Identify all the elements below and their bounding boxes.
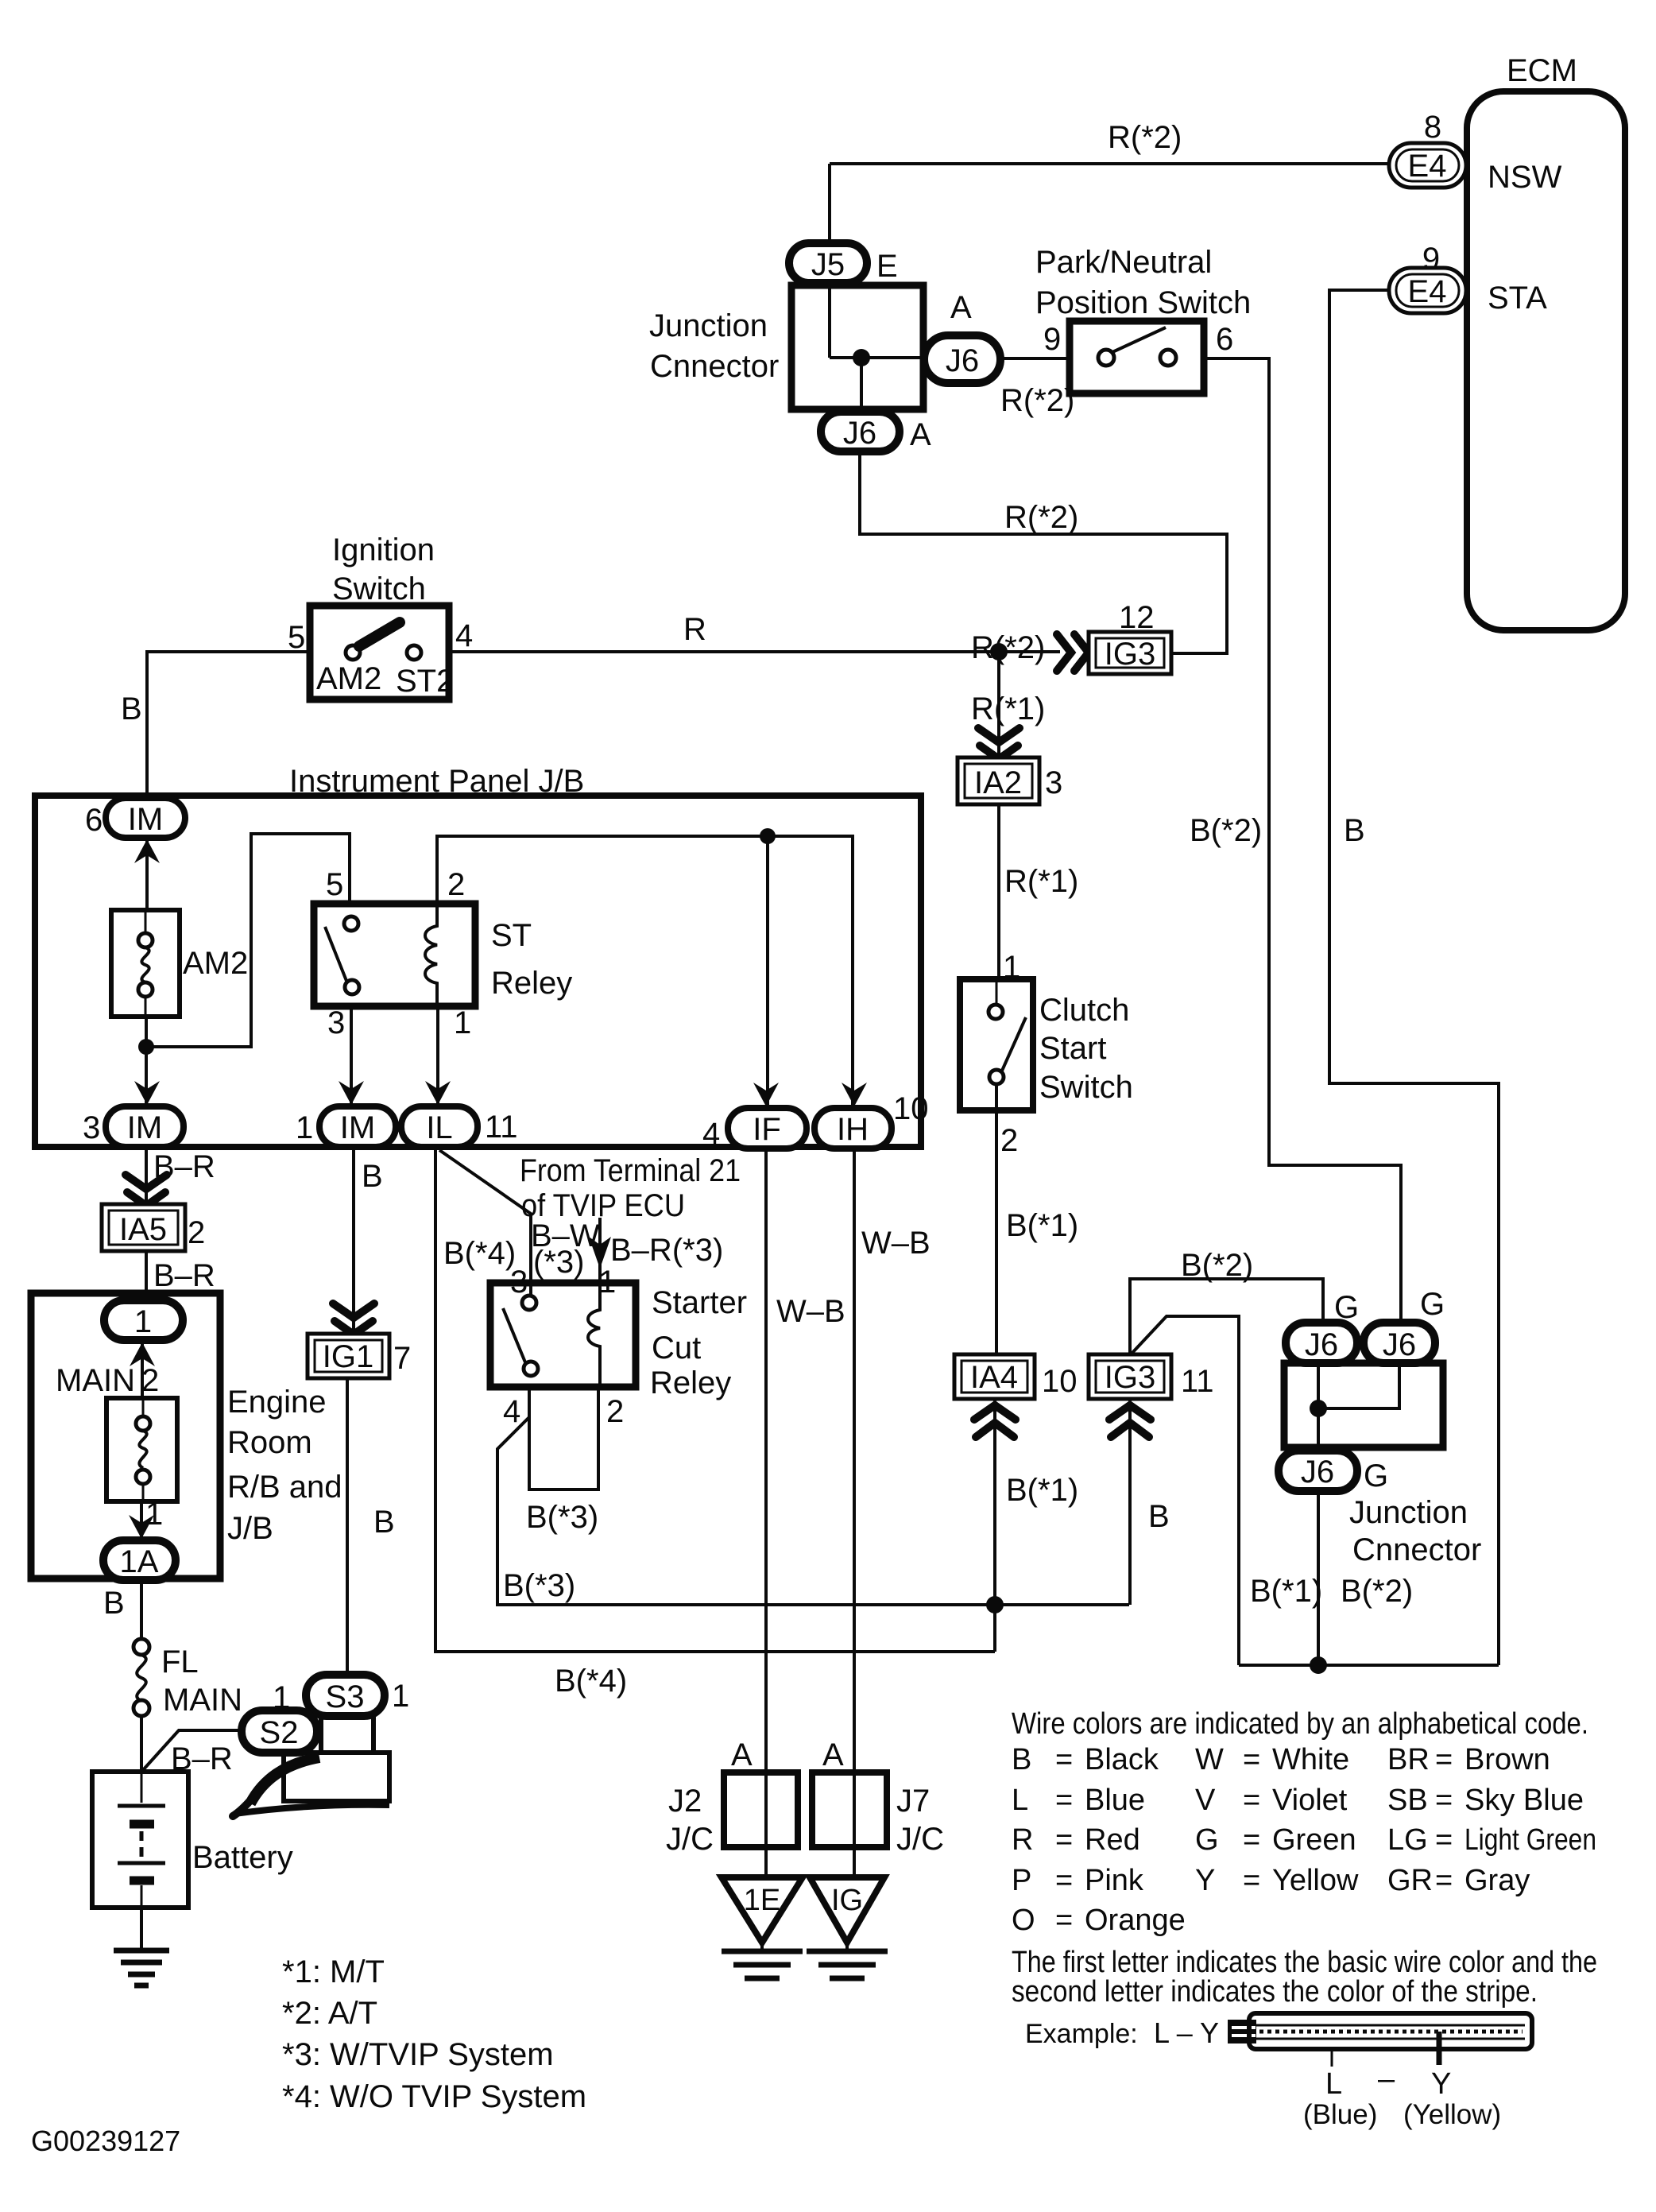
- svg-text:1: 1: [296, 1110, 313, 1145]
- svg-text:J5: J5: [811, 247, 845, 282]
- svg-text:ST: ST: [491, 918, 532, 953]
- wire from IL to starter cut relay pin 3: [439, 1150, 531, 1296]
- svg-text:A: A: [822, 1737, 844, 1772]
- svg-text:Cut: Cut: [652, 1331, 701, 1366]
- svg-text:L: L: [1325, 2067, 1342, 2101]
- svg-text:J6: J6: [843, 416, 876, 451]
- connector J2 J/C pin A: [666, 1737, 798, 1857]
- svg-text:4: 4: [503, 1394, 520, 1429]
- svg-text:5: 5: [326, 867, 343, 902]
- wire B from 1A to FL MAIN: [103, 1579, 141, 1640]
- svg-text:Clutch: Clutch: [1039, 993, 1129, 1028]
- svg-text:B: B: [121, 691, 142, 726]
- wire MAIN fuse to 1A: [140, 1501, 143, 1540]
- wire W-B from IF to J2 J/C: [766, 1149, 845, 1881]
- Ignition Switch S4: [288, 533, 473, 699]
- wire R(*1) from IA2 to clutch start switch pin 1: [999, 804, 1078, 979]
- svg-text:Junction: Junction: [649, 308, 768, 343]
- svg-text:12: 12: [1119, 600, 1155, 635]
- bottom junction line B(*1)/B(*2): [1239, 1574, 1499, 1665]
- svg-text:=: =: [1243, 1823, 1260, 1857]
- wire B from IM1 to IG1: [354, 1147, 383, 1334]
- svg-text:B: B: [1344, 813, 1365, 848]
- svg-text:B(*2): B(*2): [1190, 813, 1262, 848]
- connector IA5 pin 2: [102, 1204, 205, 1251]
- connector J5 (E): [789, 243, 898, 284]
- svg-text:W–B: W–B: [861, 1226, 931, 1261]
- svg-text:IG3: IG3: [1105, 1360, 1155, 1395]
- svg-text:R/B and: R/B and: [227, 1470, 342, 1505]
- ground connector IG: [810, 1877, 884, 1943]
- svg-text:1: 1: [134, 1304, 152, 1339]
- svg-text:Ignition: Ignition: [332, 533, 435, 568]
- Starter Cut Relay K2: [490, 1265, 747, 1429]
- svg-text:Y: Y: [1431, 2067, 1451, 2101]
- svg-text:Park/Neutral: Park/Neutral: [1035, 245, 1212, 280]
- svg-text:E4: E4: [1408, 274, 1447, 309]
- svg-text:GR: GR: [1387, 1864, 1433, 1897]
- svg-text:J6: J6: [1383, 1327, 1416, 1362]
- ground connector 1E: [722, 1877, 803, 1943]
- svg-text:Red: Red: [1085, 1823, 1140, 1857]
- svg-text:S3: S3: [326, 1679, 365, 1714]
- svg-text:Battery: Battery: [192, 1840, 293, 1875]
- wire color legend text: [1012, 1707, 1597, 2009]
- Engine Room R/B and J/B box: [31, 1293, 342, 1579]
- Instrument Panel J/B box: [35, 764, 921, 1147]
- arrow up below IM6: [134, 839, 160, 863]
- connector oval 1 (engine room): [104, 1300, 183, 1340]
- svg-text:MAIN: MAIN: [163, 1683, 242, 1718]
- svg-text:=: =: [1055, 1904, 1073, 1937]
- svg-text:2: 2: [1000, 1123, 1018, 1158]
- connector IL pin 11: [401, 1106, 518, 1147]
- connector E4 pin 8 (NSW): [1389, 110, 1562, 195]
- ECM U1 box: [1467, 53, 1625, 630]
- svg-text:Yellow: Yellow: [1272, 1864, 1359, 1897]
- svg-text:B(*1): B(*1): [1006, 1473, 1078, 1508]
- svg-text:Reley: Reley: [650, 1366, 731, 1400]
- svg-text:2: 2: [447, 867, 465, 902]
- svg-text:Engine: Engine: [227, 1385, 327, 1420]
- wire oval1 to MAIN fuse: [141, 1340, 144, 1398]
- svg-text:11: 11: [1181, 1364, 1214, 1399]
- connector chevrons below IG3: [1109, 1405, 1151, 1437]
- svg-text:=: =: [1243, 1784, 1260, 1817]
- svg-text:3: 3: [83, 1110, 100, 1145]
- svg-text:9: 9: [1422, 242, 1440, 277]
- arrow down above IL: [425, 1081, 451, 1105]
- svg-text:B: B: [373, 1505, 395, 1540]
- svg-text:P: P: [1012, 1864, 1031, 1897]
- svg-text:=: =: [1435, 1743, 1453, 1776]
- svg-text:BR: BR: [1387, 1743, 1430, 1776]
- wire B(*1) clutch switch pin 2 to IA4: [996, 1084, 1078, 1354]
- svg-text:IH: IH: [837, 1112, 869, 1147]
- connector J6 (A bottom): [821, 412, 931, 452]
- svg-text:B: B: [103, 1586, 125, 1621]
- svg-text:R(*1): R(*1): [1004, 864, 1078, 899]
- wire B from ignition switch pin 5 to IM6: [121, 652, 310, 798]
- junction node (top connector): [853, 349, 870, 366]
- svg-text:FL: FL: [161, 1644, 199, 1679]
- arrow down above IH: [842, 1083, 867, 1106]
- connector IG3 pin 11: [1089, 1354, 1214, 1399]
- svg-text:G: G: [1420, 1287, 1445, 1322]
- svg-text:R(*2): R(*2): [971, 630, 1045, 665]
- svg-text:E4: E4: [1408, 149, 1447, 184]
- connector J6 (G bottom): [1279, 1451, 1388, 1493]
- svg-text:IG1: IG1: [323, 1339, 373, 1374]
- svg-text:E: E: [876, 249, 898, 284]
- connector IM pin 1: [296, 1106, 396, 1147]
- svg-text:O: O: [1012, 1904, 1035, 1937]
- svg-text:=: =: [1055, 1784, 1073, 1817]
- svg-text:=: =: [1055, 1823, 1073, 1857]
- wire battery to ground: [140, 1908, 143, 1951]
- arrow up below oval 1: [130, 1342, 155, 1366]
- svg-text:W: W: [1195, 1743, 1224, 1776]
- connector J7 J/C pin A: [812, 1737, 944, 1857]
- wire J6A to PNP pin 9, label R(*2): [1000, 358, 1074, 418]
- svg-text:Green: Green: [1272, 1823, 1356, 1857]
- svg-text:B(*4): B(*4): [443, 1236, 516, 1271]
- arrow down above IM3: [134, 1081, 160, 1105]
- wire R(*2) from bottom J6 A to IG3: [860, 451, 1227, 653]
- svg-text:Gray: Gray: [1464, 1864, 1530, 1897]
- ST Relay K1: [314, 867, 572, 1040]
- wire ST relay pin 1 to IL: [436, 1006, 439, 1105]
- svg-text:Reley: Reley: [491, 966, 572, 1001]
- svg-text:Blue: Blue: [1085, 1784, 1145, 1817]
- wire ST relay pin 3 to IM1: [350, 1006, 353, 1105]
- wire B(*1) from IA4 down to B(*3)/B(*4) junction: [995, 1399, 1078, 1652]
- svg-text:IF: IF: [753, 1112, 781, 1147]
- connector IM pin 6: [85, 798, 185, 838]
- svg-text:6: 6: [85, 803, 103, 838]
- svg-text:*2: A/T: *2: A/T: [282, 1996, 377, 2031]
- svg-text:IM: IM: [127, 1110, 162, 1145]
- wire from bottom J6 G to ground junction line: [1317, 1491, 1320, 1665]
- svg-text:IA5: IA5: [119, 1212, 167, 1247]
- svg-text:=: =: [1435, 1864, 1453, 1897]
- connector J6 (G left): [1286, 1290, 1359, 1363]
- footnote labels *1-*4: [282, 1954, 586, 2114]
- svg-text:Start: Start: [1039, 1031, 1106, 1066]
- svg-text:IM: IM: [340, 1110, 375, 1145]
- svg-text:R(*2): R(*2): [1004, 500, 1078, 535]
- connector S2: [242, 1710, 317, 1753]
- wire B-R from IA5 to Engine Room J/B: [146, 1251, 215, 1304]
- svg-text:IM: IM: [128, 802, 163, 837]
- svg-text:*3: W/TVIP System: *3: W/TVIP System: [282, 2037, 554, 2072]
- connector oval 1A: [103, 1540, 176, 1580]
- svg-text:White: White: [1272, 1743, 1349, 1776]
- svg-text:B: B: [362, 1159, 383, 1194]
- svg-text:Position Switch: Position Switch: [1035, 285, 1251, 320]
- svg-text:V: V: [1195, 1784, 1216, 1817]
- connector chevrons above IA5: [126, 1175, 167, 1206]
- connector J6 (A right): [924, 290, 1000, 383]
- connector IA4 pin 10: [954, 1354, 1078, 1399]
- svg-text:–: –: [1378, 2063, 1395, 2096]
- svg-text:3: 3: [1045, 765, 1062, 800]
- svg-text:Sky Blue: Sky Blue: [1464, 1784, 1584, 1817]
- svg-text:R(*2): R(*2): [1108, 120, 1182, 155]
- svg-text:1E: 1E: [744, 1884, 780, 1917]
- svg-text:R: R: [1012, 1823, 1033, 1857]
- svg-text:Violet: Violet: [1272, 1784, 1348, 1817]
- svg-text:R: R: [683, 612, 706, 647]
- svg-text:IA2: IA2: [974, 765, 1022, 800]
- connector chevrons before IG3: [1057, 634, 1089, 671]
- svg-text:IG3: IG3: [1105, 637, 1155, 672]
- svg-text:8: 8: [1424, 110, 1441, 145]
- svg-text:MAIN: MAIN: [56, 1363, 135, 1398]
- svg-text:9: 9: [1043, 322, 1061, 357]
- wire R(*2) from junction connector J5 to ECM NSW: [830, 120, 1389, 164]
- arrow down above IM1: [339, 1081, 364, 1105]
- wires inside bottom junction connector: [1318, 1362, 1399, 1451]
- svg-text:J7: J7: [896, 1784, 930, 1819]
- connector chevrons below IA4: [974, 1405, 1016, 1437]
- connector IM pin 3: [83, 1106, 184, 1147]
- svg-text:LG: LG: [1387, 1823, 1428, 1857]
- svg-text:ST2: ST2: [396, 664, 454, 699]
- wire B(*1) from IG3 pin 11 to bottom junction line: [1132, 1316, 1239, 1665]
- wire B-W(*3) from TVIP ECU to relay pin 1: [531, 1218, 723, 1283]
- junction node on bottom line: [1310, 1656, 1327, 1674]
- svg-text:SB: SB: [1387, 1784, 1428, 1817]
- svg-text:B–R: B–R: [153, 1258, 215, 1293]
- svg-text:Brown: Brown: [1464, 1743, 1550, 1776]
- svg-text:B(*2): B(*2): [1181, 1248, 1253, 1283]
- svg-text:2: 2: [141, 1363, 159, 1398]
- svg-text:AM2: AM2: [183, 946, 248, 981]
- svg-text:J/C: J/C: [666, 1822, 714, 1857]
- example wire drawing: [1025, 2013, 1532, 2130]
- svg-text:A: A: [950, 290, 972, 325]
- wire branch from AM2 junction to ST relay pin 5: [146, 834, 350, 1047]
- svg-text:Starter: Starter: [652, 1285, 747, 1320]
- svg-text:J6: J6: [1301, 1455, 1334, 1490]
- connector IA2 pin 3: [958, 757, 1062, 804]
- svg-text:6: 6: [1216, 322, 1233, 357]
- svg-text:second letter indicates the co: second letter indicates the color of the…: [1012, 1975, 1538, 2009]
- svg-text:B(*2): B(*2): [1341, 1574, 1413, 1609]
- svg-text:Light Green: Light Green: [1464, 1823, 1596, 1857]
- label Junction Cnnector (bottom): [1349, 1495, 1481, 1567]
- wire W-B from IH to J7 J/C: [854, 1149, 931, 1881]
- svg-text:G: G: [1195, 1823, 1219, 1857]
- svg-text:1: 1: [454, 1005, 471, 1040]
- svg-text:Junction: Junction: [1349, 1495, 1468, 1530]
- wire inside junction connector: [830, 358, 923, 412]
- svg-text:B(*4): B(*4): [555, 1664, 627, 1699]
- wire B(*2) from IG3 pin 11 up to left J6 G: [1130, 1248, 1323, 1354]
- connector chevrons above IA2: [978, 728, 1020, 759]
- junction node (bottom connector): [1310, 1400, 1327, 1417]
- junction connector box (top): [791, 285, 923, 409]
- svg-text:S2: S2: [260, 1715, 299, 1750]
- wire B(*3) from relay pin 4 to junction line: [497, 1417, 1129, 1605]
- svg-text:W–B: W–B: [776, 1294, 845, 1329]
- svg-text:L: L: [1012, 1784, 1028, 1817]
- wire R(*1) from R junction down to IA2: [971, 652, 1045, 757]
- label From Terminal 21 of TVIP ECU: [520, 1153, 741, 1223]
- svg-text:*1: M/T: *1: M/T: [282, 1954, 385, 1989]
- svg-text:J6: J6: [946, 343, 979, 378]
- svg-text:B(*3): B(*3): [503, 1568, 575, 1603]
- connector IF pin 4: [702, 1108, 807, 1152]
- fuse MAIN 2: [56, 1363, 177, 1532]
- svg-text:B: B: [1148, 1499, 1170, 1534]
- junction connector box (bottom right): [1284, 1363, 1443, 1447]
- wire IM6 to AM2 fuse: [145, 836, 149, 910]
- svg-text:1: 1: [392, 1679, 409, 1714]
- fusible link FL MAIN: [133, 1639, 242, 1718]
- junction node on R wire: [990, 643, 1008, 661]
- wire B-R battery to starter S2: [142, 1730, 246, 1776]
- svg-text:2: 2: [188, 1215, 205, 1250]
- svg-text:Cnnector: Cnnector: [1352, 1532, 1481, 1567]
- svg-text:A: A: [731, 1737, 753, 1772]
- connector chevrons above IG1: [333, 1304, 374, 1335]
- svg-text:G00239127: G00239127: [31, 2125, 180, 2157]
- svg-text:IL: IL: [426, 1110, 452, 1145]
- arrow down above 1A: [129, 1515, 154, 1539]
- svg-text:Pink: Pink: [1085, 1864, 1144, 1897]
- svg-text:B: B: [1012, 1743, 1031, 1776]
- svg-text:10: 10: [893, 1091, 929, 1126]
- wire R(*2)/B(*2) from PNP pin 6 down to right J6 G: [1190, 358, 1401, 1323]
- svg-text:AM2: AM2: [316, 661, 381, 696]
- svg-text:4: 4: [455, 618, 473, 653]
- svg-text:R(*1): R(*1): [971, 691, 1045, 726]
- wire FL MAIN to battery: [140, 1716, 143, 1772]
- svg-text:G: G: [1364, 1459, 1388, 1493]
- svg-text:The first letter indicates the: The first letter indicates the basic wir…: [1012, 1946, 1597, 1979]
- svg-text:3: 3: [327, 1005, 345, 1040]
- svg-text:B(*1): B(*1): [1006, 1208, 1078, 1243]
- svg-text:=: =: [1435, 1784, 1453, 1817]
- svg-text:J/B: J/B: [227, 1511, 273, 1546]
- svg-text:1: 1: [145, 1497, 163, 1532]
- junction node B(*3)/B(*1): [986, 1596, 1004, 1613]
- wire B from ECM STA pin 9 down right side: [1329, 290, 1499, 1665]
- svg-text:=: =: [1243, 1864, 1260, 1897]
- svg-text:=: =: [1243, 1743, 1260, 1776]
- svg-text:From Terminal 21: From Terminal 21: [520, 1153, 741, 1188]
- svg-text:J2: J2: [668, 1784, 702, 1819]
- wire B from IG3 pin 11 down to ground net: [1130, 1399, 1170, 1605]
- arrow down on TVIP wire: [589, 1237, 611, 1269]
- wire AM2 fuse to IM3: [145, 1017, 148, 1105]
- Park/Neutral Position Switch S1: [1035, 245, 1251, 393]
- fuse AM2: [111, 910, 248, 1017]
- svg-text:Switch: Switch: [332, 571, 426, 606]
- svg-text:Y: Y: [1195, 1864, 1215, 1897]
- connector IG1 pin 7: [308, 1334, 411, 1378]
- svg-text:B–R: B–R: [171, 1741, 233, 1776]
- connector S3 pin 1: [273, 1675, 409, 1716]
- svg-text:B–R(*3): B–R(*3): [610, 1233, 723, 1268]
- svg-text:Wire colors are indicated by a: Wire colors are indicated by an alphabet…: [1012, 1707, 1588, 1741]
- svg-text:J6: J6: [1305, 1327, 1338, 1362]
- wire ST relay pin 2 to IF and IH: [437, 836, 853, 1106]
- starter assembly drawing: [233, 1716, 389, 1816]
- svg-text:(Yellow): (Yellow): [1403, 2099, 1501, 2130]
- svg-text:G: G: [1334, 1290, 1359, 1325]
- ground (battery): [114, 1951, 169, 1985]
- svg-text:1A: 1A: [120, 1544, 159, 1579]
- svg-text:Room: Room: [227, 1425, 312, 1460]
- Clutch Start Switch S5: [960, 950, 1133, 1158]
- svg-text:Orange: Orange: [1085, 1904, 1186, 1937]
- svg-text:=: =: [1055, 1864, 1073, 1897]
- wire loop relay pins 4 and 2: [529, 1387, 598, 1490]
- wire R from ignition switch pin 4 to IG3: [449, 612, 1060, 665]
- svg-text:NSW: NSW: [1488, 160, 1562, 195]
- svg-text:Switch: Switch: [1039, 1070, 1133, 1105]
- wire B(*4) from IL down around starter cut relay: [435, 1149, 995, 1699]
- svg-text:*4: W/O TVIP System: *4: W/O TVIP System: [282, 2079, 586, 2114]
- svg-text:(Blue): (Blue): [1303, 2099, 1377, 2130]
- svg-text:J/C: J/C: [896, 1822, 944, 1857]
- wire from top corner down to J5: [828, 164, 831, 358]
- ground symbol IG: [807, 1943, 888, 1978]
- svg-text:5: 5: [288, 620, 305, 655]
- wire B from IG1 to starter S3: [347, 1378, 395, 1675]
- svg-text:Black: Black: [1085, 1743, 1159, 1776]
- connector IG3 pin 12: [1089, 600, 1171, 674]
- svg-text:R(*2): R(*2): [1000, 383, 1074, 418]
- connector J6 (G right): [1364, 1287, 1445, 1363]
- junction node below AM2 fuse: [138, 1039, 154, 1055]
- svg-text:B(*3): B(*3): [526, 1500, 598, 1535]
- svg-text:11: 11: [485, 1110, 518, 1145]
- svg-text:4: 4: [702, 1117, 720, 1152]
- svg-text:Cnnector: Cnnector: [650, 349, 779, 384]
- svg-text:IG: IG: [831, 1884, 863, 1917]
- svg-text:2: 2: [606, 1394, 624, 1429]
- svg-text:L – Y: L – Y: [1154, 2016, 1219, 2049]
- svg-text:IA4: IA4: [970, 1360, 1018, 1395]
- svg-text:Example:: Example:: [1025, 2019, 1138, 2049]
- connector IH pin 10: [814, 1091, 929, 1149]
- connector E4 pin 9 (STA): [1389, 242, 1547, 316]
- svg-text:A: A: [910, 417, 931, 452]
- svg-text:=: =: [1055, 1743, 1073, 1776]
- svg-text:=: =: [1435, 1823, 1453, 1857]
- battery BT1: [92, 1772, 293, 1908]
- ground symbol 1E: [722, 1943, 803, 1978]
- svg-text:(*3): (*3): [533, 1245, 584, 1280]
- svg-text:10: 10: [1042, 1364, 1078, 1399]
- svg-text:B(*1): B(*1): [1250, 1574, 1322, 1609]
- svg-text:7: 7: [393, 1341, 411, 1376]
- label Junction Cnnector (top): [649, 308, 779, 384]
- junction node on pin2 line: [760, 828, 776, 844]
- arrow down above IF: [753, 1083, 779, 1106]
- wire B-R from IM3 to IA5: [146, 1147, 215, 1204]
- svg-text:ECM: ECM: [1507, 53, 1577, 88]
- svg-text:STA: STA: [1488, 281, 1547, 316]
